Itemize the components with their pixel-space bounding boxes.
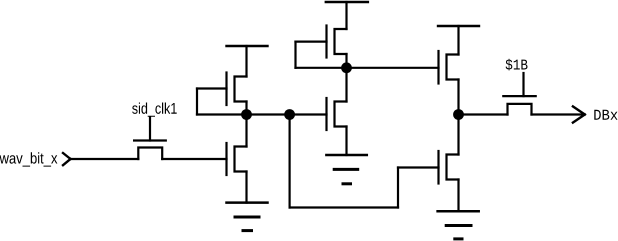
junction node OUT1 branch	[284, 109, 295, 120]
wire: M2 gate loop down to net OUT1	[196, 89, 198, 115]
junction node DB (stage-3 output)	[453, 109, 464, 120]
ground GND2	[326, 155, 366, 184]
transistor M5 (NMOS driver, stage 2)	[327, 68, 347, 155]
wire net A: pass transistor to stage-1 NMOS gate	[162, 158, 226, 160]
wire net OUT1 riser up to stage-3 NMOS gate lead	[397, 168, 399, 208]
label sid_clk1	[132, 103, 177, 117]
transistor M3 (NMOS driver, stage 1)	[227, 115, 247, 203]
output port arrow DBx	[573, 106, 585, 122]
transistor M6 (PMOS, stage 3)	[439, 51, 459, 115]
wire net OUT1 lead to stage-3 NMOS gate	[398, 166, 439, 168]
wire net OUT1 bottom run	[290, 206, 398, 208]
wire: M4 gate loop down to net OUT2	[294, 42, 296, 68]
wire net OUT1 horizontal	[197, 113, 290, 115]
wire net OUT2: stage-2 output to stage-3 PMOS gate	[296, 67, 439, 69]
transistor M7 (NMOS, stage 3)	[439, 115, 459, 212]
junction node OUT1 at M2/M3 drains	[241, 109, 252, 120]
ground GND1	[227, 203, 268, 231]
wire net OUT1 riser down from junction	[289, 115, 291, 208]
label $1B	[506, 59, 528, 71]
power VDD1	[227, 46, 268, 77]
ground GND3	[438, 211, 479, 239]
wire net DB: stage-3 output to output pass transistor	[459, 113, 508, 115]
transistor M8 (NMOS pass gate, $1B)	[503, 73, 535, 115]
transistor M1 (NMOS pass gate, sid_clk1)	[134, 118, 166, 160]
transistor M4 (PMOS load, stage 2, diode-connected)	[296, 26, 347, 68]
power VDD2	[326, 2, 368, 29]
power VDD3	[438, 26, 479, 55]
wire net DBx: pass transistor to output arrow	[532, 113, 584, 115]
port label wav_bit_x	[0, 152, 57, 166]
input port arrow (chevron)	[63, 153, 71, 165]
wire net OUT1 to stage-2 NMOS gate	[290, 113, 327, 115]
wire net wav_bit_x: port to pass transistor	[71, 158, 139, 160]
junction node OUT2	[341, 62, 352, 73]
port label DBx	[594, 110, 617, 120]
transistor M2 (PMOS load, stage 1, diode-connected)	[197, 73, 247, 115]
